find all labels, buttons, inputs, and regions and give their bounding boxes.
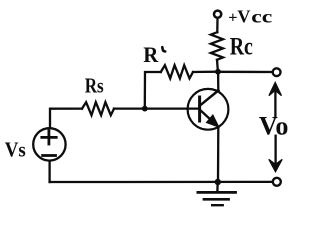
wire R' right to collector node xyxy=(193,71,218,74)
wire emitter vertical xyxy=(217,127,220,182)
transistor Q1 emitter arrowhead xyxy=(207,115,218,126)
terminal Vo bottom xyxy=(273,178,281,186)
wire base node to transistor base xyxy=(145,107,199,109)
resistor R' xyxy=(161,65,193,78)
svg-text:Vo: Vo xyxy=(259,112,289,141)
svg-text:Rs: Rs xyxy=(85,73,104,97)
wire Vs top riser xyxy=(50,109,82,128)
transistor Q1 emitter diagonal xyxy=(200,110,219,127)
svg-text:+Vcc: +Vcc xyxy=(228,6,272,26)
transistor Q1 collector diagonal xyxy=(200,90,219,105)
wire Vs bottom riser xyxy=(48,162,50,183)
voltage source Vs circle xyxy=(33,128,65,160)
wire Rc to collector node xyxy=(216,60,219,72)
terminal +Vcc xyxy=(214,11,221,18)
Vo up arrow shaft xyxy=(274,90,276,116)
wire R' left corner and riser to base node xyxy=(145,72,161,109)
wire collector node to output top terminal xyxy=(218,71,272,73)
terminal Vo top xyxy=(273,68,281,76)
node base junction xyxy=(142,106,148,112)
Vo up arrowhead xyxy=(269,82,282,95)
label R prime mark xyxy=(162,47,165,51)
Vo down arrowhead xyxy=(269,159,282,171)
ground bar 3 xyxy=(212,204,223,206)
wire Vcc terminal to Rc xyxy=(216,18,218,32)
transistor Q1 base bar xyxy=(198,97,201,121)
svg-text:Rc: Rc xyxy=(230,32,253,61)
wire Rs to base node xyxy=(114,107,145,109)
node collector junction xyxy=(215,69,221,75)
Vs plus sign xyxy=(42,131,56,144)
svg-text:R: R xyxy=(143,42,159,67)
resistor Rs xyxy=(82,102,114,115)
wire collector vertical xyxy=(217,72,219,91)
Vo down arrow shaft xyxy=(274,136,276,163)
node emitter ground junction xyxy=(215,179,221,185)
svg-text:Vs: Vs xyxy=(5,137,26,161)
ground bar 1 xyxy=(198,191,236,194)
resistor Rc xyxy=(211,32,223,60)
ground stub xyxy=(216,182,219,191)
wire bottom rail xyxy=(50,181,273,183)
ground bar 2 xyxy=(204,198,229,201)
Vs minus sign xyxy=(43,154,56,157)
transistor Q1 circle xyxy=(188,89,229,130)
